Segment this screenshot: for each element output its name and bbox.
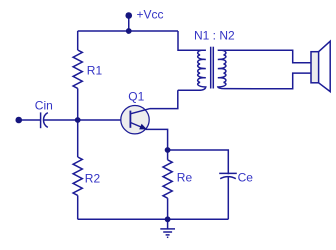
svg-text:Re: Re — [177, 171, 193, 185]
svg-text:Cin: Cin — [35, 98, 53, 112]
wire emitter node down to Re — [167, 150, 169, 160]
node input terminal — [15, 117, 22, 124]
transformer primary coil — [178, 50, 206, 90]
svg-text:R1: R1 — [87, 63, 103, 77]
capacitor Cin curved plate — [43, 113, 47, 128]
wire emitter to node — [146, 129, 168, 150]
wire Cin to base node to Q1 base — [44, 119, 131, 121]
resistor Re — [163, 160, 172, 198]
wire R1 bottom to base node to R2 top — [77, 88, 79, 157]
transistor Q1 — [121, 106, 150, 134]
capacitor Ce curved plate — [220, 177, 236, 179]
resistor R2 — [73, 157, 82, 195]
node +Vcc terminal — [125, 12, 132, 19]
wire rail corner down to primary top — [178, 31, 206, 50]
node base junction — [75, 117, 81, 123]
Q1 emitter arrow — [139, 124, 147, 130]
speaker rect — [311, 52, 319, 83]
wire top rail Vcc — [78, 30, 178, 32]
capacitor Cin straight plate — [40, 112, 42, 128]
wire Re bottom to rail — [167, 198, 169, 219]
svg-text:Ce: Ce — [238, 171, 254, 185]
wire R2 bottom to ground rail — [77, 195, 79, 219]
speaker cone — [319, 41, 331, 91]
wire Ce bottom to rail — [227, 177, 229, 220]
transformer secondary coil — [218, 50, 311, 88]
svg-text:N1 : N2: N1 : N2 — [194, 28, 235, 42]
wire emitter node to Ce branch — [168, 150, 229, 174]
svg-text:Q1: Q1 — [128, 90, 144, 104]
wire collector to transformer — [150, 90, 178, 108]
Q1 emitter line — [130, 123, 146, 130]
Q1 base bar — [129, 111, 131, 128]
svg-text:R2: R2 — [85, 172, 101, 186]
node ground junction — [165, 216, 171, 222]
wire input to Cin — [19, 119, 41, 121]
Q1 body circle — [121, 106, 149, 134]
wire secondary top to speaker — [218, 50, 311, 62]
transformer detailed — [178, 47, 311, 91]
wire left branch upper (rail to R1) — [77, 31, 79, 50]
speaker — [311, 41, 330, 91]
node Vcc rail junction — [126, 28, 132, 34]
ground — [160, 219, 175, 237]
transformer core lines — [210, 47, 212, 89]
node emitter junction — [165, 147, 171, 153]
capacitor Ce straight plate — [219, 172, 237, 174]
resistor R1 — [73, 50, 82, 88]
svg-text:+Vcc: +Vcc — [137, 8, 164, 22]
wire Vcc stub — [128, 16, 130, 32]
Q1 collector line — [130, 109, 150, 114]
wire bottom ground rail — [78, 218, 229, 220]
